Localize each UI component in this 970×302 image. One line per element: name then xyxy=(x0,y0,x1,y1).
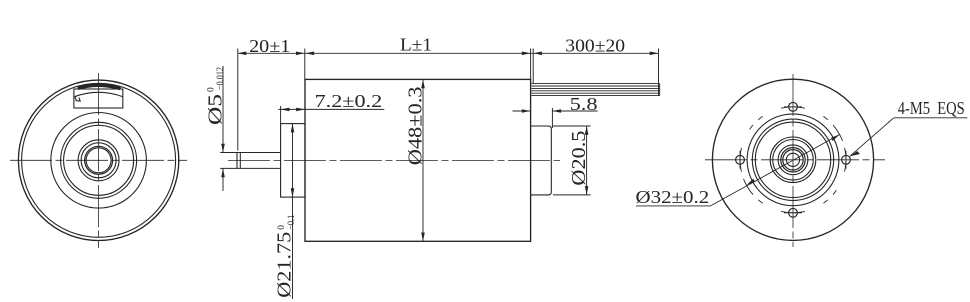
dim Ø48 line xyxy=(422,79,424,241)
4-M5 label underline xyxy=(894,117,968,119)
front face circle xyxy=(51,113,147,209)
shaft top line xyxy=(220,152,280,154)
arrow 5.8 right (outside) xyxy=(552,109,561,113)
dim text Ø21.75 with tolerance xyxy=(275,215,298,298)
front outer circle xyxy=(18,80,178,240)
arrow 4-M5 leader xyxy=(850,151,860,156)
rear hub circle 3 xyxy=(781,148,805,172)
extension line wire end xyxy=(658,49,660,96)
label window rectangle on front xyxy=(74,89,123,108)
shaft bottom line xyxy=(220,167,280,169)
front shaft circle inner xyxy=(86,148,111,173)
arrow 7.2 left xyxy=(281,108,290,112)
front shaft circle outer xyxy=(85,146,113,174)
mounting hole left xyxy=(736,155,745,164)
svg-text:−0.012: −0.012 xyxy=(216,67,226,90)
extension line body rear face xyxy=(530,49,532,80)
rear boss circle inner xyxy=(755,122,830,197)
svg-text:Ø21.75: Ø21.75 xyxy=(275,232,296,298)
arrow Ø5 top xyxy=(221,144,225,153)
hole tick marks xyxy=(740,107,846,213)
extension line shaft end xyxy=(237,49,239,151)
Ø32 diameter dimension diagonal xyxy=(711,135,840,206)
dim text Ø5 with tolerance xyxy=(205,67,226,125)
arrow Ø20.5 bottom xyxy=(585,186,589,195)
ext line flange top xyxy=(280,106,282,124)
svg-text:Ø20.5: Ø20.5 xyxy=(569,131,590,186)
svg-text:4-M5 EQS: 4-M5 EQS xyxy=(898,98,965,118)
motor body rectangle xyxy=(305,79,531,241)
rear boss circle outer xyxy=(752,119,833,200)
svg-text:−0.1: −0.1 xyxy=(287,215,297,230)
arrow Ø48 top xyxy=(421,79,425,88)
rear outer circle xyxy=(712,79,873,240)
label thin arc xyxy=(75,92,123,96)
dim text Ø48±0.3 xyxy=(406,87,427,166)
front bearing circle inner xyxy=(81,143,116,178)
svg-text:0: 0 xyxy=(277,225,287,230)
arrow Ø5 bottom xyxy=(221,168,225,177)
arrow Ø48 bottom xyxy=(421,233,425,242)
arrow Ø32 upper-right xyxy=(831,135,840,142)
front flange rectangle xyxy=(281,124,305,198)
rear face circle xyxy=(747,114,839,206)
svg-text:7.2±0.2: 7.2±0.2 xyxy=(315,91,383,111)
mounting hole right xyxy=(842,155,851,164)
lead wires xyxy=(531,84,659,96)
dim 5.8 lines xyxy=(513,110,598,112)
arrow L right xyxy=(522,52,531,56)
dim Ø20.5 line xyxy=(586,126,588,195)
front view vertical centerline xyxy=(98,73,100,248)
svg-text:20±1: 20±1 xyxy=(249,36,290,56)
label thick arc band xyxy=(78,85,121,88)
front bearing circle outer xyxy=(78,140,119,181)
arrow 300 right xyxy=(650,52,659,56)
arrow Ø32 lower-left xyxy=(746,179,755,186)
Ø32 label underline xyxy=(636,205,711,207)
arrow 20 left xyxy=(238,52,247,56)
dim Ø21.75 line xyxy=(292,124,294,299)
svg-text:L±1: L±1 xyxy=(400,34,432,54)
4-M5 leader line xyxy=(850,118,894,156)
shaft chamfer line xyxy=(239,153,241,168)
front boss inner circle xyxy=(64,125,134,195)
rear view horizontal centerline xyxy=(705,159,885,161)
top dimension line xyxy=(238,52,659,54)
arrow Ø20.5 top xyxy=(585,126,589,135)
side view centerline xyxy=(228,160,560,162)
svg-text:Ø5: Ø5 xyxy=(205,94,226,125)
svg-text:0: 0 xyxy=(206,87,216,92)
svg-text:Ø48±0.3: Ø48±0.3 xyxy=(406,87,427,166)
arrow 20 right xyxy=(296,52,305,56)
rear housing rectangle xyxy=(531,126,552,195)
bolt circle (dashed) xyxy=(740,107,846,213)
shaft end face xyxy=(236,153,238,169)
mounting hole top xyxy=(789,102,798,111)
arrow Ø21.75 top xyxy=(291,124,295,133)
front boss outer circle xyxy=(61,122,137,198)
dim 7.2 line xyxy=(278,108,384,110)
dim Ø5 upper line xyxy=(222,66,224,191)
svg-text:300±20: 300±20 xyxy=(565,36,625,56)
rear hub circle 1 xyxy=(786,153,799,166)
rear hub circle 6 xyxy=(770,137,816,183)
rear hub circle 4 xyxy=(778,145,808,175)
rear hub circle 2 xyxy=(783,150,803,170)
extension line wire root xyxy=(532,49,534,84)
arrow 300 left xyxy=(533,52,542,56)
svg-text:Ø32±0.2: Ø32±0.2 xyxy=(636,187,710,207)
ext lines rear housing top/bottom xyxy=(553,126,591,195)
arrow Ø21.75 bottom xyxy=(291,188,295,197)
arrow 7.2 right xyxy=(296,108,305,112)
rear view vertical centerline xyxy=(792,74,794,247)
front outer inner circle xyxy=(22,83,176,237)
ext line rear housing edge xyxy=(551,108,553,128)
dim text Ø20.5 xyxy=(569,131,590,186)
rear hub circle 5 xyxy=(773,140,814,181)
extension line body front face xyxy=(304,49,306,80)
label corner zigzag mark xyxy=(75,97,80,101)
arrow L left xyxy=(305,52,314,56)
mounting hole bottom xyxy=(789,208,798,217)
svg-text:5.8: 5.8 xyxy=(570,94,598,114)
arrow 5.8 left (outside) xyxy=(522,109,531,113)
front view horizontal centerline xyxy=(10,159,187,161)
